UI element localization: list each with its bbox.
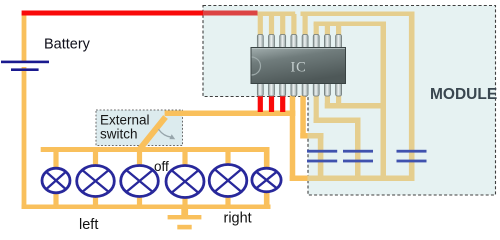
svg-text:MODULE: MODULE: [430, 86, 497, 103]
lamp L6: [252, 168, 281, 192]
capacitor C2 plates: [343, 150, 373, 163]
lamp L2: [77, 166, 115, 197]
switch blade (diagonal): [139, 117, 166, 150]
wire: pin b5 vertical: [300, 96, 306, 139]
svg-text:switch: switch: [100, 127, 138, 142]
wire: switch horizontal to IC: [165, 111, 296, 117]
svg-text:Battery: Battery: [44, 36, 91, 52]
wire: stub b6: [314, 96, 319, 124]
wire: red stub pin b2: [269, 96, 274, 113]
svg-text:IC: IC: [291, 60, 307, 76]
wire: battery vertical upper: [22, 13, 27, 63]
wire: capacitor C2 vertical: [355, 118, 361, 182]
IC U1 top pins: [257, 35, 341, 49]
battery plates: [1, 61, 49, 71]
wire: module ground bus: [308, 176, 415, 182]
svg-text:right: right: [224, 211, 252, 227]
wire: stub t1: [258, 14, 263, 35]
svg-text:External: External: [100, 113, 150, 128]
lamp L3: [121, 166, 159, 197]
wire: lamp L1 stubs: [53, 149, 58, 207]
wire: battery vertical lower: [22, 67, 27, 209]
wire: capacitor C1 vertical: [318, 133, 324, 181]
wire: pin b4 vertical to ground bus: [290, 96, 296, 182]
wire A vertical: [409, 12, 415, 182]
svg-text:off: off: [154, 159, 169, 174]
wire: stub t5: [303, 14, 308, 35]
wire: stub t2: [269, 14, 274, 35]
capacitor C1 plates: [307, 150, 337, 163]
external switch box: [96, 110, 183, 146]
wire: stub t8: [336, 23, 341, 35]
switch direction arrow: [159, 129, 176, 139]
wire: red stub pin b1: [258, 96, 263, 113]
wire: pin b5 horizontal, in-module part: [308, 133, 324, 139]
wire: stub t4: [291, 14, 296, 35]
wire: bottom return bus: [22, 205, 271, 210]
wire: pin b5 horizontal outside part: [300, 133, 307, 139]
module box: [203, 6, 496, 196]
wire H6 (pin b6): [314, 118, 361, 124]
wire: stub b7: [325, 96, 330, 109]
lamp L5: [209, 165, 247, 197]
wire: lamp L3 stubs: [137, 149, 142, 207]
wire: stub b8: [336, 96, 341, 109]
wire: stub t7: [325, 23, 330, 35]
wire: red power rail from battery: [22, 11, 203, 16]
IC U1 bottom pins: [257, 83, 341, 96]
wire H7 (pins b7,b8): [325, 103, 386, 109]
lamp L4: [166, 166, 204, 198]
wire B vertical: [381, 22, 387, 182]
wire: lamp L6 stubs: [264, 149, 270, 207]
wire: lamp L5 stubs: [225, 149, 230, 207]
wire: lamp top bus: [41, 147, 270, 152]
wire: ground bus exit (outside module): [290, 176, 308, 182]
wire: red rail in module: [203, 11, 258, 16]
capacitor C3 plates: [397, 150, 427, 163]
svg-text:left: left: [79, 217, 98, 233]
lamp L1: [42, 168, 70, 193]
wire B horizontal (pins t6-t8): [314, 22, 386, 27]
wire: red stub pin b3: [280, 96, 285, 113]
wire: stub t3: [280, 14, 285, 35]
wire: stub t6: [314, 23, 319, 35]
wire: lamp L2 stubs: [93, 149, 98, 207]
wire A horizontal (pin t5): [301, 12, 415, 17]
wire: lamp L4 stubs: [182, 149, 187, 207]
IC U1 body: [251, 48, 346, 84]
wire: power bus A1 (pins t1-t4, in module): [257, 12, 295, 17]
ground: [181, 205, 188, 217]
